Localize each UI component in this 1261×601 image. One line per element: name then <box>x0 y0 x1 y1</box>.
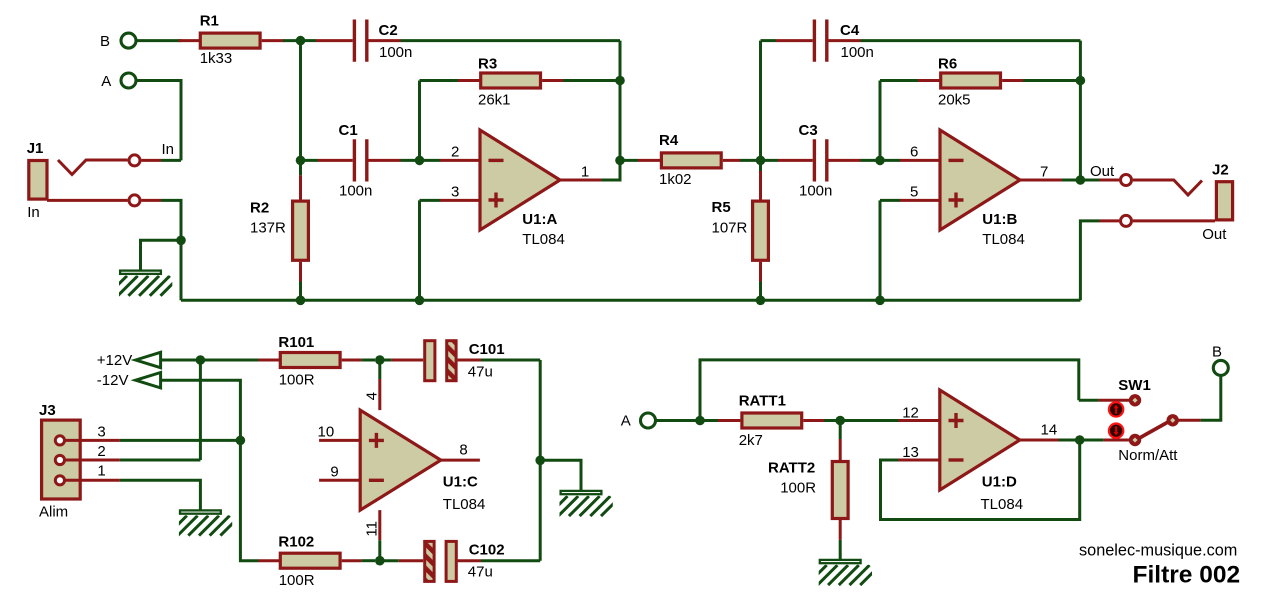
wire pin2 <box>420 159 481 162</box>
svg-text:1k02: 1k02 <box>659 171 692 188</box>
svg-text:26k1: 26k1 <box>478 92 511 109</box>
J3 pad 1 <box>55 476 64 485</box>
svg-text:U1:D: U1:D <box>982 473 1017 490</box>
junction rail/R2 <box>296 296 306 306</box>
J3 pin 2 wire <box>65 459 200 462</box>
svg-text:J2: J2 <box>1212 161 1229 178</box>
svg-text:100R: 100R <box>780 480 816 497</box>
junction A / bypass riser <box>695 416 705 426</box>
svg-text:100R: 100R <box>279 372 315 389</box>
svg-text:TL084: TL084 <box>443 496 486 513</box>
junction out D <box>1075 435 1085 445</box>
ground earth symbol (J1) <box>107 271 181 296</box>
svg-text:Alim: Alim <box>39 503 68 520</box>
resistor R5 <box>753 160 769 300</box>
op-amp U1:B <box>940 130 1020 230</box>
svg-text:47u: 47u <box>468 363 493 380</box>
capacitor C4 <box>761 20 861 62</box>
wire pin11 (V-) <box>378 510 381 561</box>
wire ground node to earth <box>141 240 182 270</box>
svg-text:9: 9 <box>330 463 338 480</box>
wire -12V to corner riser <box>161 380 241 440</box>
wire pin3 <box>420 199 481 202</box>
svg-text:47u: 47u <box>468 563 493 580</box>
junction RATT1/RATT2/pin12 <box>835 416 845 426</box>
resistor R6 <box>880 73 1080 88</box>
svg-text:6: 6 <box>910 143 918 160</box>
resistor RATT2 <box>832 421 848 560</box>
wire pin9 stub <box>319 479 360 482</box>
svg-text:R2: R2 <box>250 199 269 216</box>
junction node C1/R2 <box>296 156 306 166</box>
svg-text:10: 10 <box>318 424 335 441</box>
wire SW1 common to B <box>1179 376 1221 420</box>
svg-text:7: 7 <box>1040 164 1048 181</box>
wire R1 to node R1C2 <box>283 39 301 42</box>
wire pin8 stub <box>441 459 480 462</box>
svg-text:Norm/Att: Norm/Att <box>1118 447 1178 464</box>
wire ground node down to rail <box>180 240 183 300</box>
svg-text:100n: 100n <box>379 44 412 61</box>
wire feedback riser x620 <box>619 41 622 180</box>
svg-text:TL084: TL084 <box>982 231 1025 248</box>
svg-text:TL084: TL084 <box>981 496 1024 513</box>
connector J2 (jack) <box>1133 180 1233 220</box>
wire riser node to C4 row <box>759 41 762 161</box>
wire pin4 (V+) <box>378 360 381 410</box>
junction R101/C101/pin4 <box>375 355 385 365</box>
J2 sleeve pin circle <box>1121 215 1132 226</box>
svg-text:In: In <box>27 204 40 221</box>
junction +12V / J3 pin2 riser <box>196 355 206 365</box>
svg-text:A: A <box>101 73 111 90</box>
terminal A <box>121 73 136 88</box>
op-amp U1:C <box>360 410 441 510</box>
svg-text:11: 11 <box>364 521 381 537</box>
svg-text:2: 2 <box>97 443 105 460</box>
svg-text:RATT2: RATT2 <box>768 459 815 476</box>
terminal A (bottom) <box>641 413 656 428</box>
svg-text:C4: C4 <box>840 22 860 39</box>
wire J1 sleeve row <box>47 200 181 240</box>
wire bypass riser and top line to SW1 <box>700 360 1079 421</box>
svg-text:1: 1 <box>97 463 105 480</box>
svg-text:Filtre 002: Filtre 002 <box>1133 562 1241 589</box>
svg-text:C2: C2 <box>379 22 398 39</box>
wire vref stub to earth <box>540 460 581 490</box>
capacitor C102 (electrolytic) <box>380 541 540 581</box>
capacitor C101 (electrolytic) <box>380 341 540 381</box>
wire pin10 stub <box>319 439 360 442</box>
ground earth symbol (RATT2) <box>807 560 881 585</box>
svg-text:100R: 100R <box>279 572 315 589</box>
svg-text:R5: R5 <box>712 199 731 216</box>
svg-text:A: A <box>621 413 631 430</box>
ground earth symbol (J3) <box>167 510 241 535</box>
wire B to R1 <box>137 39 182 42</box>
wire A to RATT1 <box>657 419 719 422</box>
wire out B to J2 tip <box>1080 179 1119 182</box>
svg-text:J3: J3 <box>39 402 56 419</box>
wire C2 to feedback riser <box>401 39 621 42</box>
svg-text:14: 14 <box>1041 422 1058 439</box>
resistor R101 <box>259 353 376 368</box>
supply arrow -12V <box>136 373 161 388</box>
svg-text:C3: C3 <box>799 122 818 139</box>
resistor R2 <box>293 160 309 300</box>
junction rail/pin5 riser <box>875 296 885 306</box>
svg-text:B: B <box>1212 343 1222 360</box>
J2 tip pin circle <box>1121 175 1132 186</box>
svg-text:TL084: TL084 <box>522 231 565 248</box>
ground rail wire <box>181 299 1080 302</box>
SW1 state indicator top <box>1109 402 1123 416</box>
wire pin12 <box>840 419 940 422</box>
junction node pin2/C1/R3 <box>415 156 425 166</box>
junction mid riser / vref ground <box>535 456 545 466</box>
svg-text:U1:C: U1:C <box>443 473 478 490</box>
svg-text:100n: 100n <box>339 183 372 200</box>
svg-text:1: 1 <box>581 164 589 181</box>
wire mid riser C101 to C102 <box>539 360 542 561</box>
capacitor C1 <box>301 139 420 181</box>
junction J1 ground node <box>176 236 186 246</box>
svg-text:U1:A: U1:A <box>522 211 557 228</box>
junction node R1/C2/R2 <box>296 36 306 46</box>
J3 pad 2 <box>55 455 64 464</box>
junction node R6/feedback <box>1076 76 1086 86</box>
junction node out A / R4 <box>615 156 625 166</box>
svg-text:20k5: 20k5 <box>938 92 971 109</box>
svg-text:In: In <box>162 141 175 158</box>
wire out D to SW1 <box>1080 439 1129 442</box>
svg-text:+12V: +12V <box>97 352 132 369</box>
svg-text:Out: Out <box>1202 226 1227 243</box>
wire pin13 feedback <box>881 444 1080 520</box>
resistor R3 <box>420 73 621 88</box>
svg-text:C1: C1 <box>339 122 358 139</box>
svg-text:5: 5 <box>910 184 918 201</box>
wire pin5 riser to rail <box>879 200 882 300</box>
svg-text:1k33: 1k33 <box>200 50 233 67</box>
junction node R4/R5/C3 <box>756 156 766 166</box>
svg-text:137R: 137R <box>250 219 286 236</box>
J1 sleeve pin circle <box>129 195 140 206</box>
wire riser -12V down to R102 row <box>240 440 258 560</box>
svg-text:C101: C101 <box>469 341 505 358</box>
svg-text:RATT1: RATT1 <box>739 393 786 410</box>
resistor RATT1 <box>718 413 840 428</box>
svg-text:107R: 107R <box>712 219 748 236</box>
svg-text:B: B <box>100 33 110 50</box>
op-amp U1:A <box>480 130 560 230</box>
svg-text:R3: R3 <box>478 56 497 73</box>
svg-text:4: 4 <box>364 392 381 400</box>
svg-text:U1:B: U1:B <box>982 211 1017 228</box>
resistor R4 <box>620 153 761 168</box>
junction R102/C102/pin11 <box>375 556 385 566</box>
wire right feedback riser x1080 <box>1079 41 1082 180</box>
svg-text:100n: 100n <box>841 44 874 61</box>
wire riser pin6 node to R6 <box>879 81 882 161</box>
svg-text:13: 13 <box>902 444 919 461</box>
svg-text:J1: J1 <box>27 140 44 157</box>
wire riser pin2 node to R3 <box>418 81 421 161</box>
wire J2 sleeve row <box>1080 221 1215 300</box>
wire pin7 output <box>1020 179 1080 182</box>
terminal B (bottom) <box>1213 360 1228 375</box>
junction node R3/feedback <box>615 76 625 86</box>
terminal B <box>121 33 136 48</box>
svg-text:sonelec-musique.com: sonelec-musique.com <box>1079 541 1237 559</box>
svg-text:2k7: 2k7 <box>739 432 763 449</box>
wire C4 to right riser <box>861 39 1081 42</box>
J3 pin 3 wire <box>65 439 240 442</box>
wire +12V to R101 <box>161 359 259 362</box>
junction -12V / J3 pin3 <box>236 436 246 446</box>
supply arrow +12V <box>136 352 161 367</box>
svg-text:R4: R4 <box>659 132 679 149</box>
op-amp U1:D <box>940 390 1020 490</box>
wire node down to C1 node <box>299 41 302 161</box>
wire J1 tip to corner A riser <box>142 159 182 162</box>
wire SW1 top contact feed <box>1079 399 1129 402</box>
svg-text:3: 3 <box>97 423 105 440</box>
svg-text:Out: Out <box>1090 163 1115 180</box>
svg-text:R101: R101 <box>278 334 314 351</box>
svg-text:SW1: SW1 <box>1118 377 1151 394</box>
svg-text:C102: C102 <box>469 542 505 559</box>
svg-text:R102: R102 <box>278 534 314 551</box>
wire A to corner down to In <box>137 81 181 161</box>
svg-text:8: 8 <box>459 442 467 459</box>
wire pin1 output <box>560 160 620 180</box>
ground earth symbol (vref) <box>548 491 622 516</box>
junction node out B <box>1076 175 1086 185</box>
wire pin5 <box>880 199 940 202</box>
capacitor C3 <box>761 139 881 181</box>
junction node pin6/C3/R6 <box>875 156 885 166</box>
junction rail/pin3 riser <box>415 296 425 306</box>
svg-text:R1: R1 <box>200 12 219 29</box>
J3 pad 3 <box>55 436 64 445</box>
svg-text:-12V: -12V <box>97 372 129 389</box>
svg-text:12: 12 <box>902 404 919 421</box>
junction rail/R5 <box>756 296 766 306</box>
J1 tip pin circle <box>129 155 140 166</box>
svg-text:100n: 100n <box>799 183 832 200</box>
svg-text:R6: R6 <box>938 56 957 73</box>
connector J1 (jack) <box>29 160 128 199</box>
wire riser +12V to J3 pin2 <box>199 360 202 460</box>
SW1 state indicator bottom <box>1109 424 1123 438</box>
capacitor C2 <box>301 20 401 62</box>
J3 pin 1 wire <box>65 480 200 510</box>
resistor R102 <box>259 553 376 568</box>
wire pin3 riser to rail <box>418 200 421 300</box>
resistor R1 <box>179 33 285 48</box>
wire pin6 <box>880 159 940 162</box>
svg-text:2: 2 <box>451 143 459 160</box>
wire pin14 output <box>1020 439 1080 442</box>
svg-text:3: 3 <box>451 184 459 201</box>
connector J3 <box>42 420 81 499</box>
switch SW1 <box>1129 394 1179 446</box>
